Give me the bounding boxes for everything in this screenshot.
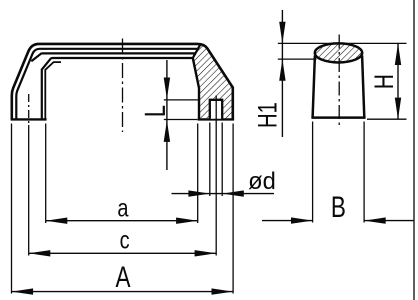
side view centerline — [338, 35, 340, 127]
page border line right — [413, 0, 415, 300]
dimension B line right — [364, 220, 413, 222]
extension line hole left — [209, 123, 211, 197]
side view right edge — [362, 56, 364, 118]
dimension H1 line — [281, 10, 283, 137]
dimension B line left — [262, 220, 313, 222]
arrow B left — [291, 217, 313, 223]
arrow H bottom — [395, 98, 401, 120]
extension line H1 H top — [278, 42, 407, 44]
handle outer contour — [12, 44, 233, 120]
extension line hole right — [221, 123, 223, 197]
left foot bottom edge — [11, 118, 47, 120]
arrow H top — [395, 43, 401, 65]
extension line hole top — [164, 99, 199, 101]
svg-text:ød: ød — [248, 167, 276, 194]
centerline left leg — [28, 94, 30, 125]
label L — [145, 106, 164, 115]
arrow H1 top — [279, 22, 285, 44]
svg-text:a: a — [117, 194, 128, 222]
arrow c left — [29, 250, 51, 256]
svg-text:c: c — [120, 227, 130, 255]
inner opening corner line 5 — [45, 62, 61, 119]
right foot bottom edge — [198, 118, 234, 120]
arrow L bottom — [164, 120, 170, 142]
side view top ellipse section — [315, 43, 362, 62]
extension line bottom face — [164, 119, 198, 121]
svg-text:H1: H1 — [253, 102, 284, 128]
centerline of front view — [122, 39, 124, 133]
extension line A left — [11, 124, 13, 294]
dimension od line — [172, 193, 275, 195]
extension line c right — [215, 125, 217, 256]
extension line B right — [363, 122, 365, 223]
arrow B right — [364, 217, 386, 223]
section cut edge top right — [193, 44, 201, 58]
dimension a line — [46, 220, 198, 222]
arrow od left — [188, 190, 210, 196]
arrow H1 bottom — [279, 59, 285, 81]
arrow L top — [164, 78, 170, 100]
extension line a left — [45, 124, 47, 224]
profile line 2 — [16, 49, 198, 119]
extension line c left — [28, 125, 30, 256]
dimension c line — [29, 252, 217, 254]
extension line H bottom — [367, 118, 407, 120]
arrow a right — [176, 218, 198, 224]
extension line a right — [197, 124, 199, 224]
svg-text:H: H — [369, 74, 399, 89]
dimension H line — [397, 43, 399, 119]
extension line B left — [312, 122, 314, 223]
side view left edge — [313, 56, 315, 118]
dimension L line — [166, 60, 168, 170]
profile line 3 — [31, 53, 196, 61]
arrow a left — [46, 218, 68, 224]
arrow A right — [212, 288, 234, 294]
arrow od right — [222, 190, 244, 196]
extension line A right — [232, 124, 234, 294]
svg-text:B: B — [331, 190, 346, 224]
svg-text:A: A — [115, 260, 130, 294]
section hatch right shoulder and leg — [193, 44, 233, 118]
centerline right hole — [215, 96, 217, 126]
dimension A line — [12, 291, 234, 293]
extension line H1 bottom — [278, 58, 317, 60]
arrow A left — [12, 288, 34, 294]
side view bottom edge — [311, 116, 365, 119]
arrow c right — [195, 250, 217, 256]
section inner boundary right — [193, 58, 199, 119]
tapped hole in right leg — [210, 100, 222, 119]
inner opening contour line 4 — [42, 58, 193, 119]
